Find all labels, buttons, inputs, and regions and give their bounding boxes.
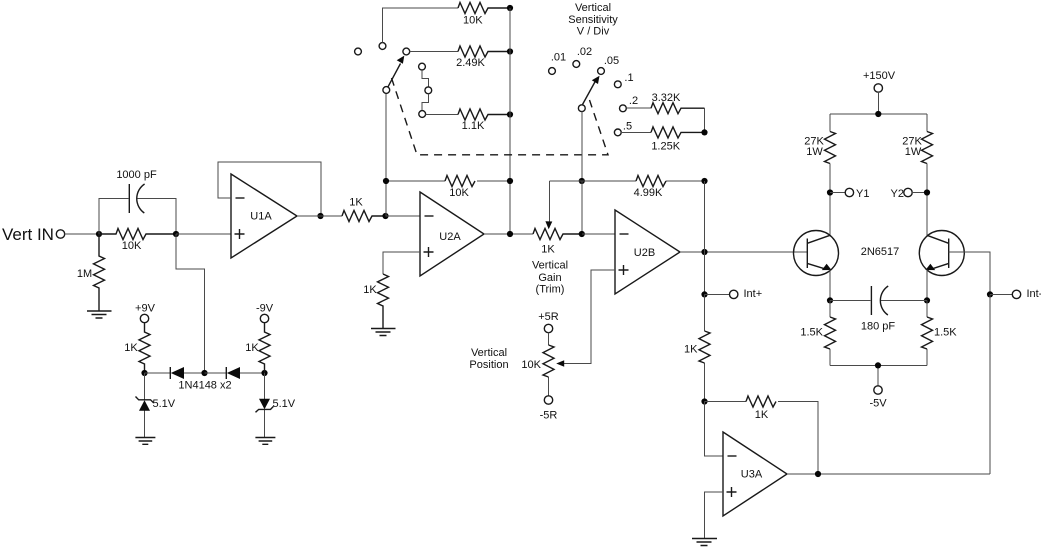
svg-text:Sensitivity: Sensitivity: [568, 14, 618, 26]
node U1A output junction: [317, 213, 323, 219]
svg-text:U1A: U1A: [250, 211, 272, 223]
switch SW1 contact 10K: [379, 43, 386, 50]
wire U3A + to ground: [705, 492, 724, 538]
node Q1 emitter junction: [827, 297, 833, 303]
transistor Q1 2N6517 left: [794, 231, 839, 276]
svg-text:1.5K: 1.5K: [934, 327, 957, 339]
U2B plus pin: [619, 265, 629, 275]
U1A minus pin: [236, 197, 245, 199]
svg-text:5.1V: 5.1V: [153, 398, 176, 410]
svg-text:1K: 1K: [684, 344, 698, 356]
potentiometer 10K Vertical Position: [548, 333, 550, 396]
wire 4.99K row: [550, 180, 705, 182]
node bus R 2.49K junction: [507, 48, 513, 54]
svg-text:-9V: -9V: [256, 303, 274, 315]
terminal -5R: [544, 396, 552, 404]
svg-text:.05: .05: [604, 55, 619, 67]
switch SW1 chain contact a: [419, 63, 426, 70]
wire Vert IN to node A: [65, 233, 99, 235]
resistor 1.5K right: [926, 300, 928, 365]
svg-text:Position: Position: [469, 359, 508, 371]
wire U2B + input to position pot wiper: [558, 270, 615, 364]
wire U2A output: [484, 233, 533, 235]
resistor 1K (U3A feedback): [705, 402, 819, 475]
svg-text:1M: 1M: [77, 268, 92, 280]
wire 27K to collectors: [830, 164, 927, 236]
wire down to U3A - input: [705, 402, 724, 457]
svg-text:1K: 1K: [541, 244, 555, 256]
ground (U3A): [692, 539, 717, 546]
switch SW2 common contact: [578, 105, 585, 112]
wire U3A output: [787, 473, 990, 475]
node 10K feedback right junction: [507, 178, 513, 184]
terminal Y2: [904, 188, 912, 196]
ground (1M): [87, 311, 112, 318]
svg-text:1.1K: 1.1K: [462, 120, 485, 132]
wire node B to U1A + input: [176, 233, 231, 235]
node Y2 junction: [924, 189, 930, 195]
resistor 10K input: [99, 229, 176, 240]
svg-text:10K: 10K: [122, 240, 142, 252]
svg-text:1K: 1K: [349, 197, 363, 209]
op-amp U2A: [420, 192, 484, 276]
svg-text:Vertical: Vertical: [575, 2, 611, 14]
resistor 1.1K: [458, 109, 510, 120]
switch SW1 arm with arrow: [388, 64, 401, 87]
wire chain link b-c: [422, 94, 428, 111]
wire U1A output: [297, 215, 342, 217]
resistor 1K (U2A +): [378, 274, 389, 328]
node +150V junction: [875, 111, 881, 117]
op-amp U2B: [615, 210, 680, 294]
svg-text:1.5K: 1.5K: [800, 327, 823, 339]
svg-text:+5R: +5R: [538, 311, 559, 323]
node 10K feedback left junction: [383, 178, 389, 184]
svg-text:1000 pF: 1000 pF: [116, 169, 157, 181]
svg-text:U3A: U3A: [741, 469, 763, 481]
node U2B output junction: [701, 249, 707, 255]
resistor 1K (U1A out): [342, 211, 386, 222]
resistor 27K 1W right: [922, 132, 933, 164]
U3A minus pin: [728, 455, 737, 457]
svg-text:4.99K: 4.99K: [634, 187, 663, 199]
node diode center junction: [201, 370, 207, 376]
svg-text:(Trim): (Trim): [536, 284, 565, 296]
wire Int- bus down to U3A output: [989, 294, 991, 474]
U3A plus pin: [727, 487, 737, 497]
wire chain link a-b: [422, 70, 428, 87]
op-amp U1A: [231, 174, 297, 258]
ground (right zener): [255, 438, 275, 445]
switch SW1 contact 2.49K: [403, 48, 410, 55]
node diode left junction: [141, 370, 147, 376]
node 1.25K junction: [701, 129, 707, 135]
ground (U2A): [371, 329, 396, 336]
switch SW1 chain contact b: [425, 87, 432, 94]
svg-text:1K: 1K: [124, 342, 138, 354]
transistor Q2 2N6517 right: [919, 231, 964, 276]
wire to U2B - input: [582, 233, 615, 235]
svg-text:Y2: Y2: [891, 188, 904, 200]
svg-text:1K: 1K: [245, 342, 259, 354]
U2B minus pin: [620, 233, 629, 235]
wire U2B output: [680, 251, 807, 253]
svg-text:2N6517: 2N6517: [861, 246, 900, 258]
svg-text:.02: .02: [577, 46, 592, 58]
wire to U2A - input: [386, 215, 421, 217]
node diode right junction: [261, 370, 267, 376]
svg-text:Int+: Int+: [744, 288, 763, 300]
resistor 4.99K: [636, 176, 666, 187]
svg-text:V / Div: V / Div: [577, 26, 610, 38]
svg-text:Gain: Gain: [538, 272, 561, 284]
node trim right junction: [579, 231, 585, 237]
node bus M 4.99K junction: [701, 178, 707, 184]
svg-text:1W: 1W: [806, 146, 823, 158]
svg-text:1N4148 x2: 1N4148 x2: [178, 380, 231, 392]
svg-text:.2: .2: [629, 95, 638, 107]
node SW2 row junction: [579, 178, 585, 184]
resistor 10K (top): [458, 3, 510, 14]
wire .2 to 3.32K: [626, 107, 651, 109]
svg-text:-5R: -5R: [540, 410, 558, 422]
switch SW1 common contact: [383, 87, 390, 94]
dashed gang line SW1-SW2: [392, 78, 609, 155]
svg-text:.5: .5: [623, 121, 632, 133]
svg-text:Vertical: Vertical: [532, 260, 568, 272]
svg-text:+150V: +150V: [863, 70, 896, 82]
wire 3.32K corner down: [704, 108, 706, 132]
node A junction: [96, 231, 102, 237]
svg-text:Y1: Y1: [856, 188, 869, 200]
zener 5.1V right: [264, 373, 266, 438]
wire 1.1K row: [426, 114, 458, 116]
terminal Vert IN: [56, 230, 64, 238]
svg-text:10K: 10K: [463, 15, 483, 27]
svg-text:-5V: -5V: [869, 398, 887, 410]
wire 10K feedback row: [386, 180, 510, 182]
wire bus M vertical (U2B out to Int+ node): [704, 181, 706, 294]
wire node B down to diode clamp node: [176, 234, 205, 373]
node -5V junction: [875, 362, 881, 368]
diode D2 1N4148: [205, 372, 265, 374]
svg-text:1K: 1K: [755, 409, 769, 421]
node B junction: [173, 231, 179, 237]
svg-text:U2A: U2A: [439, 231, 461, 243]
svg-text:180 pF: 180 pF: [861, 321, 896, 333]
U2A plus pin: [424, 247, 434, 257]
terminal -5V: [874, 386, 882, 394]
node U2A output junction: [507, 231, 513, 237]
diode D1 1N4148: [145, 372, 205, 374]
svg-text:Vertical: Vertical: [471, 347, 507, 359]
svg-text:U2B: U2B: [634, 247, 655, 259]
resistor 1.25K: [651, 127, 705, 138]
U2A minus pin: [425, 215, 434, 217]
wire SW2 node down to trim row: [581, 181, 583, 234]
node bus R 1.1K junction: [507, 111, 513, 117]
wire +150V rail: [830, 92, 927, 131]
switch SW2 arm with arrow: [583, 80, 597, 105]
wire -5V rail: [830, 365, 927, 385]
terminal Int+: [705, 293, 730, 295]
svg-text:10K: 10K: [521, 359, 541, 371]
svg-text:Vert IN: Vert IN: [2, 225, 54, 244]
resistor 1K (+9V): [139, 323, 150, 373]
svg-text:2.49K: 2.49K: [456, 57, 485, 69]
resistor 1M: [94, 234, 105, 311]
wire bus R vertical: [509, 8, 511, 234]
capacitor C 1000 pF: [99, 199, 176, 235]
terminal Int-: [990, 293, 1012, 295]
node bus L junction: [382, 213, 388, 219]
ground (left zener): [135, 438, 155, 445]
capacitor 180 pF: [830, 299, 927, 301]
wire 2.49K row: [410, 51, 458, 53]
wire top row to 10K: [383, 8, 458, 43]
svg-text:.1: .1: [624, 72, 633, 84]
resistor 10K (feedback): [445, 176, 475, 187]
resistor 1K (-9V): [259, 323, 270, 373]
op-amp U3A: [723, 432, 787, 516]
resistor 3.32K: [651, 103, 705, 114]
node Int+ junction: [701, 291, 707, 297]
svg-text:1.25K: 1.25K: [651, 141, 680, 153]
node U3A input junction: [701, 398, 707, 404]
potentiometer 1K Vertical Gain Trim: [533, 229, 582, 240]
resistor 2.49K: [458, 46, 510, 57]
resistor 1K (bus): [704, 294, 706, 401]
U1A plus pin: [235, 229, 245, 239]
resistor 1.5K left: [829, 300, 831, 365]
node Y1 junction: [827, 189, 833, 195]
svg-text:5.1V: 5.1V: [273, 398, 296, 410]
terminal Y1: [830, 192, 845, 194]
wire U2A + input: [383, 252, 420, 274]
switch SW1 contact unused: [355, 48, 362, 55]
node U3A output junction: [815, 471, 821, 477]
zener 5.1V left: [144, 373, 146, 438]
svg-text:1K: 1K: [363, 284, 377, 296]
node Int- junction: [987, 291, 993, 297]
wire .5 to 1.25K: [621, 131, 651, 133]
svg-text:+9V: +9V: [135, 303, 156, 315]
svg-text:.01: .01: [551, 52, 566, 64]
svg-text:3.32K: 3.32K: [652, 92, 681, 104]
wire trim wiper arrow: [549, 181, 551, 223]
wire SW2 common down to 4.99K row: [581, 112, 583, 181]
wire U1A feedback (output to - input): [218, 162, 321, 216]
resistor 27K 1W left: [825, 132, 836, 164]
wire bus L vertical (switch common to U2A input node): [385, 94, 387, 217]
svg-text:1W: 1W: [905, 146, 922, 158]
node bus R top junction: [507, 5, 513, 11]
node Q2 emitter junction: [924, 297, 930, 303]
svg-text:Int-: Int-: [1027, 288, 1041, 300]
switch SW1 contact 1.1K: [419, 111, 426, 118]
wire Q2 base to Int- bus: [949, 252, 990, 294]
svg-text:10K: 10K: [449, 187, 469, 199]
